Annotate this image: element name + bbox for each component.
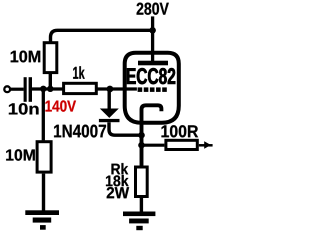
anode plate bbox=[138, 61, 168, 66]
node junction dot top 10M bbox=[47, 86, 53, 92]
ground left bar3 bbox=[40, 225, 46, 230]
wire diode to cathode node bbox=[109, 122, 142, 135]
resistor R3 100R output bbox=[166, 140, 197, 149]
label 18k bbox=[106, 175, 129, 186]
cathode bbox=[142, 105, 162, 165]
wire cathode node to 100R bbox=[142, 144, 165, 147]
wire Rk to ground bbox=[140, 197, 143, 213]
label 280V supply bbox=[137, 3, 169, 15]
diode D1 triangle bbox=[100, 109, 119, 118]
grid dashes bbox=[138, 87, 143, 92]
wire input terminal to capacitor bbox=[10, 88, 23, 91]
resistor R4 10M bottom bbox=[37, 142, 51, 172]
diode D1 cathode bar bbox=[99, 119, 120, 122]
node junction dot grid-leak bbox=[40, 86, 46, 92]
wire capacitor to 1k resistor bbox=[32, 87, 63, 90]
wire bottom 10M to ground bbox=[42, 174, 45, 211]
output wire with arrow bbox=[199, 144, 213, 147]
label 140V red bbox=[46, 100, 77, 111]
input terminal J1 bbox=[4, 86, 10, 92]
label 1N4007 bbox=[54, 125, 106, 138]
wire up to top 10M resistor bbox=[49, 74, 52, 89]
capacitor C1 10n left plate bbox=[24, 77, 27, 102]
label 10M top bbox=[11, 51, 41, 63]
ground left bar2 bbox=[33, 218, 52, 223]
wire 280V drop to anode bbox=[151, 16, 154, 61]
label 2W bbox=[107, 187, 129, 198]
node grid junction bbox=[107, 86, 114, 93]
capacitor C1 10n right plate bbox=[29, 77, 32, 102]
resistor R2 1k grid stopper bbox=[64, 83, 97, 93]
wire 1k to grid bbox=[96, 87, 137, 90]
label ECC82 bbox=[127, 68, 175, 84]
label 100R bbox=[162, 125, 199, 137]
ground left bar1 bbox=[25, 210, 59, 215]
ground right bar3 bbox=[136, 226, 142, 230]
resistor R1 10M top bbox=[44, 43, 57, 73]
wire 10M top to supply rail bbox=[51, 30, 153, 42]
label 1k bbox=[73, 66, 85, 78]
ground right bar2 bbox=[129, 219, 149, 224]
wire down to bottom 10M resistor bbox=[42, 89, 45, 140]
node cathode-output junction bbox=[138, 142, 145, 149]
label Rk bbox=[112, 163, 129, 174]
resistor Rk 18k 2W cathode bbox=[136, 167, 148, 197]
label 10M bottom bbox=[6, 149, 35, 160]
label 10n bbox=[9, 103, 39, 114]
tube envelope U1 ECC82 bbox=[125, 53, 179, 123]
diode D1 anode wire from grid node bbox=[107, 89, 110, 109]
ground right bar1 bbox=[123, 212, 155, 217]
node supply junction bbox=[149, 27, 156, 34]
output arrowhead bbox=[204, 141, 211, 149]
node cathode-diode junction bbox=[138, 132, 145, 139]
